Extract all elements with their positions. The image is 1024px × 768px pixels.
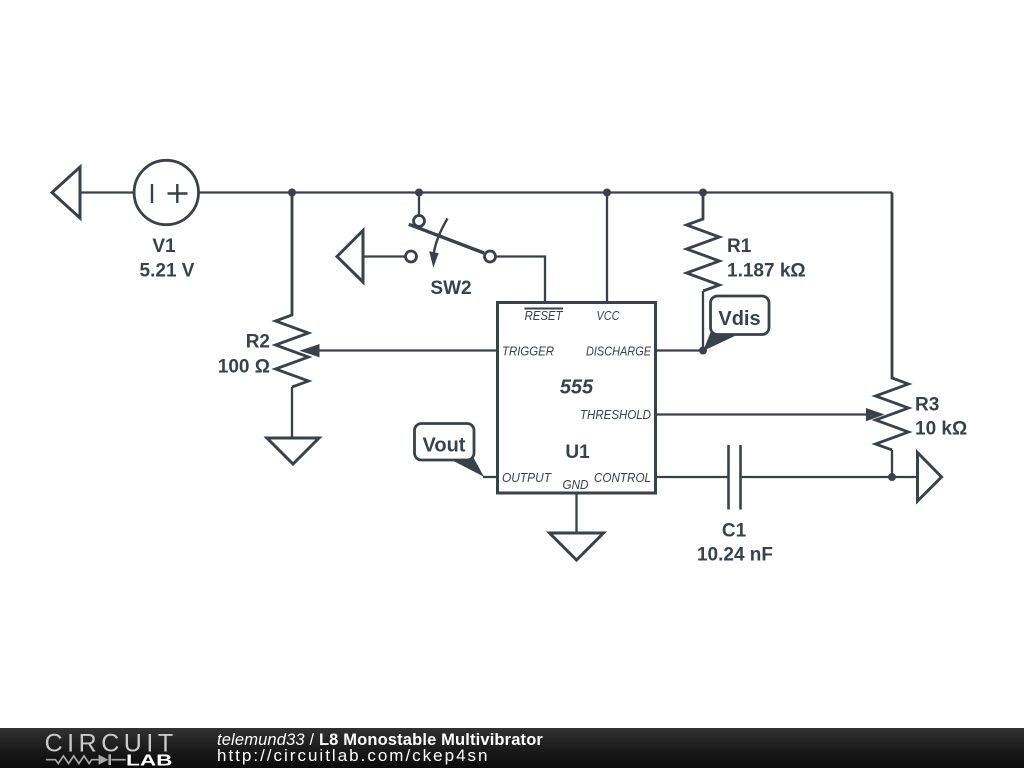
wire CONTROL to C1 [656,476,729,478]
node junction dot R3 bottom [888,473,896,481]
wire top rail [199,191,892,193]
op-amp U1 box outline (555 IC) [498,303,656,494]
wire SW2 to RESET pin [496,257,546,303]
svg-text:100 Ω: 100 Ω [218,357,270,378]
footer title text [217,732,543,764]
switch SW2 terminal right [485,251,496,262]
svg-text:555: 555 [560,377,594,399]
node flag Vout bubble [415,424,485,477]
svg-text:Vdis: Vdis [718,308,760,330]
svg-text:R2: R2 [246,332,270,353]
wire right rail down to R3 [891,193,893,379]
svg-text:5.21 V: 5.21 V [140,261,195,282]
wire DISCHARGE to R1 [656,349,704,351]
svg-text:CONTROL: CONTROL [594,470,651,485]
V1 minus terminal bar [151,184,153,203]
node junction dot Vdis [699,347,707,355]
CircuitLab logo [0,728,200,768]
resistor R2 zigzag [276,193,309,388]
wire R3 bottom [891,450,893,477]
svg-text:DISCHARGE: DISCHARGE [586,344,651,359]
svg-text:10.24 nF: 10.24 nF [697,545,773,566]
wire R1 bottom [702,291,704,351]
arrowhead trigger wiper [300,344,320,357]
svg-text:C1: C1 [722,521,747,542]
svg-text:1.187 kΩ: 1.187 kΩ [727,261,806,282]
wire V1 to input flag [80,191,134,193]
resistor R3 zigzag [876,193,909,451]
resistor R1 zigzag [687,193,720,292]
output flag right [918,453,942,502]
svg-text:VCC: VCC [597,308,621,323]
svg-text:R1: R1 [727,236,752,257]
svg-text:GND: GND [563,477,589,492]
wire TRIGGER to R2 arrow [318,349,498,351]
wire THRESHOLD to R3 arrow [656,413,869,415]
capacitor C1 right plate [739,445,742,510]
input flag at SW2 [337,231,363,283]
wire junction to output flag [892,476,917,478]
svg-text:RESET: RESET [525,308,564,323]
input flag at V1 [52,167,80,218]
wire C1 right to junction [741,476,893,478]
svg-text:V1: V1 [152,236,176,257]
svg-text:R3: R3 [915,395,939,416]
node junction dot VCC [603,189,611,197]
svg-text:TRIGGER: TRIGGER [502,344,554,359]
footer bar [0,728,1024,768]
node junction dot R2 [288,189,296,197]
wire OUTPUT stub [483,476,498,478]
ground symbol U1 GND [550,533,604,560]
voltage source V1 circle [134,160,198,224]
switch SW2 terminal left [406,251,417,262]
wire GND lead [575,493,577,533]
ground symbol R2 [267,438,319,464]
wire VCC [606,193,608,303]
wire R2 bottom to ground [291,387,293,438]
svg-text:U1: U1 [565,442,590,463]
V1 plus sign [168,184,188,203]
switch SW2 lever [409,224,484,253]
arrowhead SW2 toggle [429,251,438,268]
node flag Vdis bubble [703,296,769,351]
svg-text:LAB: LAB [126,752,173,768]
svg-text:Vout: Vout [423,435,466,457]
node junction dot SW2 [415,189,423,197]
svg-text:THRESHOLD: THRESHOLD [580,407,651,422]
capacitor C1 left plate [727,445,730,510]
switch SW2 toggle arc arrow [434,219,448,254]
node junction dot R1 [699,189,707,197]
arrowhead threshold wiper [866,408,885,421]
svg-text:10 kΩ: 10 kΩ [915,419,967,440]
wire SW2 stub [418,193,420,216]
svg-text:SW2: SW2 [430,278,471,299]
wire R2 top [291,193,293,316]
wire SW2 flag lead [363,255,406,257]
switch SW2 terminal top [414,216,425,227]
svg-text:OUTPUT: OUTPUT [502,470,552,485]
